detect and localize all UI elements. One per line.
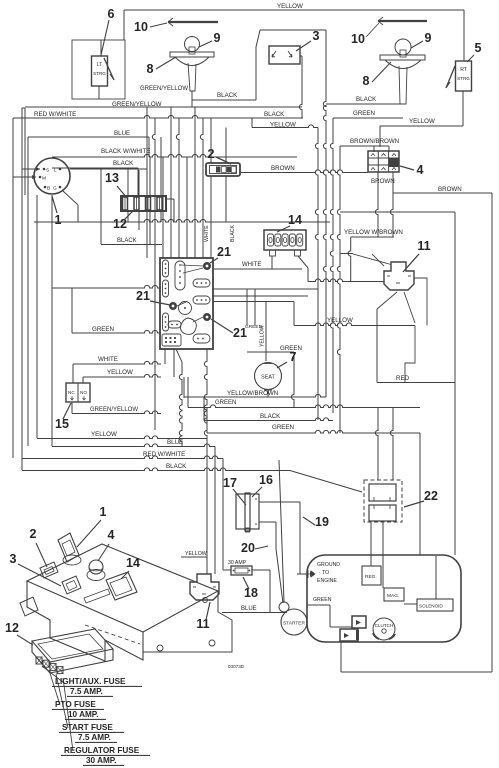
wire connector 14 pins (272, 256, 308, 282)
starter terminal (279, 602, 289, 612)
wire horizontal 212 (340, 212, 455, 555)
label 21 left (136, 289, 170, 305)
svg-text:MAG.: MAG. (387, 593, 399, 599)
console fuse block 12 (32, 629, 113, 674)
wire WHITE left (73, 349, 165, 383)
wire YELLOW/BROWN (184, 377, 326, 398)
svg-text:GROUND: GROUND (317, 562, 340, 568)
svg-text:1: 1 (55, 213, 62, 227)
svg-text:G: G (53, 186, 57, 192)
console dashed line (85, 625, 140, 644)
switch 3 (269, 46, 300, 64)
label START fuse (59, 723, 124, 742)
wire from switch 3 pins (299, 56, 302, 118)
wire BLACK below fuses (101, 238, 162, 245)
svg-text:YELLOW/BROWN: YELLOW/BROWN (227, 390, 278, 397)
svg-text:YELLOW: YELLOW (185, 551, 207, 557)
label 2 (208, 147, 231, 164)
svg-text:03073D: 03073D (228, 664, 245, 669)
svg-text:M: M (42, 176, 46, 182)
label 5 (467, 41, 482, 62)
console label 14 (121, 556, 140, 579)
svg-text:10: 10 (351, 32, 365, 46)
label 17 (223, 476, 246, 505)
wire bundle right v326 (323, 30, 326, 397)
svg-text:11: 11 (417, 239, 430, 253)
wire solenoid-mag (404, 556, 436, 604)
ignition module block (21 terminals) (160, 258, 213, 349)
label 10 right (351, 23, 379, 46)
svg-text:15: 15 (55, 417, 69, 431)
wire BLACK W/WHITE (52, 148, 297, 157)
starter motor (281, 609, 307, 635)
svg-text:BROWN: BROWN (371, 178, 395, 185)
wire bundle v155 (152, 118, 155, 430)
wire from RT STRG bottom (462, 91, 464, 126)
svg-text:GREEN/YELLOW: GREEN/YELLOW (90, 407, 138, 413)
svg-text:WHITE: WHITE (204, 225, 210, 242)
wire GREEN mid right (245, 324, 302, 352)
svg-text:BLACK: BLACK (356, 96, 377, 103)
wire bundle v171 (170, 107, 172, 258)
svg-text:9: 9 (214, 31, 221, 45)
wire BLACK bottom (22, 463, 362, 492)
svg-text:17: 17 (223, 476, 237, 490)
wire bundle right v333 (330, 118, 333, 413)
ground to engine (306, 562, 340, 584)
label 3 (296, 29, 320, 51)
svg-text:30 AMP.: 30 AMP. (86, 756, 117, 765)
switch LT STRG (item 6) (92, 20, 115, 100)
wire right outer loop (491, 193, 493, 672)
wire bundle v179 (176, 118, 179, 258)
wire fuse 18 sides (223, 570, 270, 613)
svg-text:10 AMP.: 10 AMP. (68, 710, 99, 719)
label 11 lower (196, 602, 210, 631)
clutch (373, 618, 395, 640)
wire fuse block bottom pins (128, 199, 174, 245)
label 7 (277, 350, 297, 368)
console label 3 (10, 552, 61, 586)
svg-text:GREEN: GREEN (272, 424, 294, 431)
label 21 bottom (211, 319, 247, 340)
wire bundle v211 (210, 176, 212, 258)
svg-text:30 AMP: 30 AMP (228, 560, 247, 566)
part number text (228, 664, 245, 669)
wire WHITE mid (213, 262, 302, 269)
svg-text:10: 10 (134, 20, 148, 34)
wire bundle right v318 (315, 128, 318, 421)
wire YELLOW top border (124, 3, 464, 61)
svg-text:14: 14 (126, 556, 140, 570)
svg-text:GREEN: GREEN (215, 400, 236, 406)
label 12 schematic (113, 211, 133, 231)
wire 19 vertical (299, 502, 301, 574)
wire YELLOW right (380, 118, 463, 147)
svg-text:BLUE: BLUE (167, 439, 183, 446)
console label 1 (77, 505, 107, 547)
svg-text:SEAT: SEAT (261, 375, 275, 381)
label 9 left (199, 31, 221, 47)
wire 22 to REG (371, 408, 393, 589)
label 19 (303, 515, 329, 529)
wire GREEN/YELLOW lower (25, 91, 302, 108)
label 15 (55, 403, 71, 431)
svg-text:16: 16 (259, 473, 273, 487)
light bar 10 left (168, 18, 218, 26)
relay 16/17 (236, 493, 259, 532)
console label 12 (5, 621, 33, 645)
svg-text:BLUE: BLUE (241, 606, 257, 612)
wire left vertical 3 (27, 137, 29, 446)
svg-text:BROWN: BROWN (271, 165, 295, 172)
wire BROWN hour meter (241, 165, 368, 173)
label LIGHT/AUX fuse (52, 677, 142, 696)
svg-text:RED W/WHITE: RED W/WHITE (34, 111, 76, 118)
svg-text:BROWN/BROWN: BROWN/BROWN (350, 138, 399, 145)
wire starter to engine (306, 621, 308, 623)
label 10 left (134, 20, 167, 34)
wire from LT STRG bottom (98, 86, 100, 99)
wire BROWN below connector 4 (371, 172, 395, 237)
svg-text:YELLOW: YELLOW (91, 431, 117, 438)
label 4 connector (400, 163, 424, 177)
svg-text:12: 12 (5, 621, 19, 635)
svg-text:3: 3 (313, 29, 320, 43)
console label 4 (98, 528, 115, 561)
svg-text:STRG: STRG (93, 71, 106, 76)
wire BLACK step right (264, 111, 285, 118)
svg-text:YELLOW: YELLOW (107, 369, 133, 376)
svg-text:GREEN: GREEN (313, 597, 332, 603)
svg-text:REGULATOR FUSE: REGULATOR FUSE (64, 746, 140, 755)
svg-text:7.5 AMP.: 7.5 AMP. (70, 687, 103, 696)
svg-text:YELLOW: YELLOW (277, 3, 303, 10)
wire RED (377, 375, 455, 383)
svg-text:GREEN/YELLOW: GREEN/YELLOW (140, 86, 188, 92)
wire loop around LT STRG (72, 40, 125, 99)
svg-text:ENGINE: ENGINE (317, 578, 337, 584)
label 6 (108, 7, 115, 21)
svg-text:GREEN: GREEN (92, 326, 114, 333)
wire GREEN long (207, 407, 420, 555)
wire YELLOW small (181, 551, 207, 557)
svg-text:BLACK W/WHITE: BLACK W/WHITE (101, 148, 151, 155)
wire BLUE bottom (52, 439, 215, 447)
svg-text:5: 5 (475, 41, 482, 55)
svg-text:3: 3 (10, 552, 17, 566)
svg-text:BLACK: BLACK (166, 463, 187, 470)
wire YELLOW mid right (247, 289, 415, 326)
wire engine bottom loop (341, 641, 492, 672)
wire YELLOW W/BROWN (340, 229, 403, 265)
svg-text:GREEN: GREEN (353, 110, 375, 117)
svg-text:22: 22 (424, 489, 438, 503)
svg-text:14: 14 (288, 213, 302, 227)
wire fuse block top pins (128, 137, 161, 196)
svg-text:7: 7 (290, 350, 297, 364)
label REGULATOR fuse (61, 746, 150, 765)
fuse 18 (30 AMP) (228, 560, 252, 575)
engine outline (307, 555, 461, 642)
svg-text:STARTER: STARTER (283, 621, 305, 627)
headlight 8 right (380, 39, 425, 104)
connector 14 (264, 230, 306, 256)
wire ground feed (297, 573, 306, 575)
wire GREEN/YELLOW nc-no (72, 402, 161, 414)
label 16 (252, 473, 273, 497)
svg-text:B: B (47, 186, 50, 192)
label 21 top (210, 245, 231, 263)
svg-text:BLACK: BLACK (217, 92, 238, 99)
svg-text:START FUSE: START FUSE (62, 723, 113, 732)
svg-text:6: 6 (108, 7, 115, 21)
wire bundle right v340 (337, 146, 340, 433)
wire horizontal 288 (52, 285, 161, 288)
switch RT STRG (item 5) (446, 61, 472, 91)
connector 11 upper (372, 254, 414, 290)
svg-text:8: 8 (363, 74, 370, 88)
svg-text:STRG: STRG (457, 76, 470, 81)
svg-text:SOLENOID: SOLENOID (419, 604, 443, 609)
console body (20, 533, 232, 661)
wire block right y302 (213, 302, 294, 408)
fuse leader lines (42, 666, 73, 751)
wire BLUE top (28, 130, 149, 157)
label 22 (404, 489, 438, 507)
svg-text:GREEN: GREEN (245, 324, 263, 330)
wire BLACK left lamp (192, 92, 256, 100)
wire BLACK upper-left (52, 160, 138, 244)
wire BLACK low (204, 397, 333, 421)
svg-text:S: S (46, 168, 49, 174)
interlock module 22 (dashed) (364, 480, 402, 522)
label WHITE vertical (204, 225, 210, 242)
magneto MAG (384, 588, 404, 601)
wire bundle v163 (162, 157, 164, 258)
wire block right y284 (213, 289, 318, 326)
wire loop to switch 3 (256, 30, 326, 100)
connector 4 (368, 151, 399, 172)
wire hour meter pins (211, 118, 226, 222)
svg-text:RED: RED (396, 375, 410, 382)
svg-text:WHITE: WHITE (98, 356, 118, 363)
regulator REG (362, 566, 381, 585)
wire from key M (13, 175, 36, 179)
wire BROWN/BROWN (340, 138, 399, 152)
svg-text:7.5 AMP.: 7.5 AMP. (78, 733, 111, 742)
svg-text:18: 18 (244, 586, 258, 600)
connector 11 lower (190, 574, 219, 600)
svg-text:BLUE: BLUE (114, 130, 130, 137)
label 14 connector (277, 213, 302, 232)
label 20 (241, 541, 268, 555)
svg-text:PTO FUSE: PTO FUSE (55, 700, 96, 709)
label 8 right (363, 62, 391, 88)
fuse block 13 (121, 196, 166, 211)
svg-text:4: 4 (417, 163, 424, 177)
svg-text:BROWN: BROWN (438, 186, 462, 193)
svg-text:2: 2 (30, 527, 37, 541)
hour meter 2 (206, 163, 240, 176)
wire RED W/WHITE bottom (22, 451, 223, 459)
wire RED W/WHITE top (13, 111, 303, 118)
svg-text:NC: NC (68, 390, 75, 395)
wire GREEN engine (307, 597, 352, 627)
svg-text:L: L (54, 168, 57, 174)
engine connector pair (340, 616, 366, 641)
svg-text:LT: LT (97, 62, 102, 68)
svg-text:CLUTCH: CLUTCH (375, 623, 394, 628)
label 1 key switch (52, 196, 62, 227)
seat switch 7 (255, 363, 282, 398)
wire GREEN right lamp (333, 110, 403, 118)
wire YELLOW left2 (83, 349, 174, 383)
wire left vertical 4 (25, 108, 37, 438)
svg-text:8: 8 (147, 62, 154, 76)
wire through connector 11 (308, 237, 427, 383)
wire left vertical 2 (22, 108, 25, 470)
label PTO fuse (52, 700, 106, 719)
wire YELLOW bottom (37, 431, 207, 439)
wire BLACK right lamp (326, 96, 403, 104)
svg-text:BLACK: BLACK (117, 238, 137, 244)
svg-text:13: 13 (105, 171, 119, 185)
wire bundle v195 (194, 107, 196, 258)
wire horizontal 222 (34, 219, 330, 222)
svg-text:21: 21 (217, 245, 231, 259)
label YELLOW rotated (260, 325, 266, 347)
wire GREEN/YELLOW upper label (140, 86, 188, 92)
label BLACK vertical (230, 224, 236, 242)
wire left vertical 5 (51, 195, 53, 446)
svg-text:20: 20 (241, 541, 255, 555)
wire from key G (63, 191, 78, 222)
svg-text:WHITE: WHITE (242, 262, 261, 268)
console label 2 (30, 527, 47, 567)
wire GREEN seat (188, 377, 420, 408)
key switch 1 (34, 158, 70, 194)
svg-text:21: 21 (136, 289, 150, 303)
svg-text:BLACK: BLACK (113, 160, 134, 167)
svg-text:NO: NO (80, 390, 87, 395)
safety switch 15 (NC NO) (66, 383, 90, 402)
svg-text:BLACK: BLACK (230, 224, 236, 242)
wire YELLOW zig (252, 118, 318, 129)
wire relay connections (176, 349, 300, 574)
svg-text:BLACK: BLACK (264, 111, 285, 118)
wire bundle v147 (146, 107, 148, 258)
svg-text:· TO: · TO (319, 570, 329, 576)
light bar 10 right (378, 17, 427, 25)
wire 20 diagonal (276, 460, 284, 603)
wire left vertical 1 (12, 118, 14, 458)
label 18 (243, 577, 258, 600)
svg-text:1: 1 (100, 505, 107, 519)
headlight 8 left (170, 37, 214, 92)
svg-text:19: 19 (315, 515, 329, 529)
label 13 (105, 171, 127, 198)
label 8 left (147, 57, 176, 76)
wire from key S-L (22, 167, 147, 171)
wire bundle v187 (186, 157, 188, 258)
svg-text:RT: RT (460, 67, 467, 73)
wire GREEN left (72, 288, 161, 333)
wire BLUE starter (222, 606, 287, 613)
svg-text:YELLOW: YELLOW (409, 118, 435, 125)
svg-text:YELLOW W/BROWN: YELLOW W/BROWN (344, 229, 403, 236)
label 9 right (411, 31, 432, 48)
wire BROWN right (393, 186, 492, 193)
svg-text:11: 11 (196, 617, 209, 631)
solenoid box (417, 599, 453, 611)
svg-text:4: 4 (108, 528, 115, 542)
wire bundle v203 (200, 118, 203, 258)
svg-text:9: 9 (425, 31, 432, 45)
label 11 upper (403, 239, 431, 272)
svg-text:BLACK: BLACK (260, 413, 281, 420)
svg-text:REG.: REG. (365, 574, 377, 580)
svg-text:LIGHT/AUX. FUSE: LIGHT/AUX. FUSE (55, 677, 126, 686)
